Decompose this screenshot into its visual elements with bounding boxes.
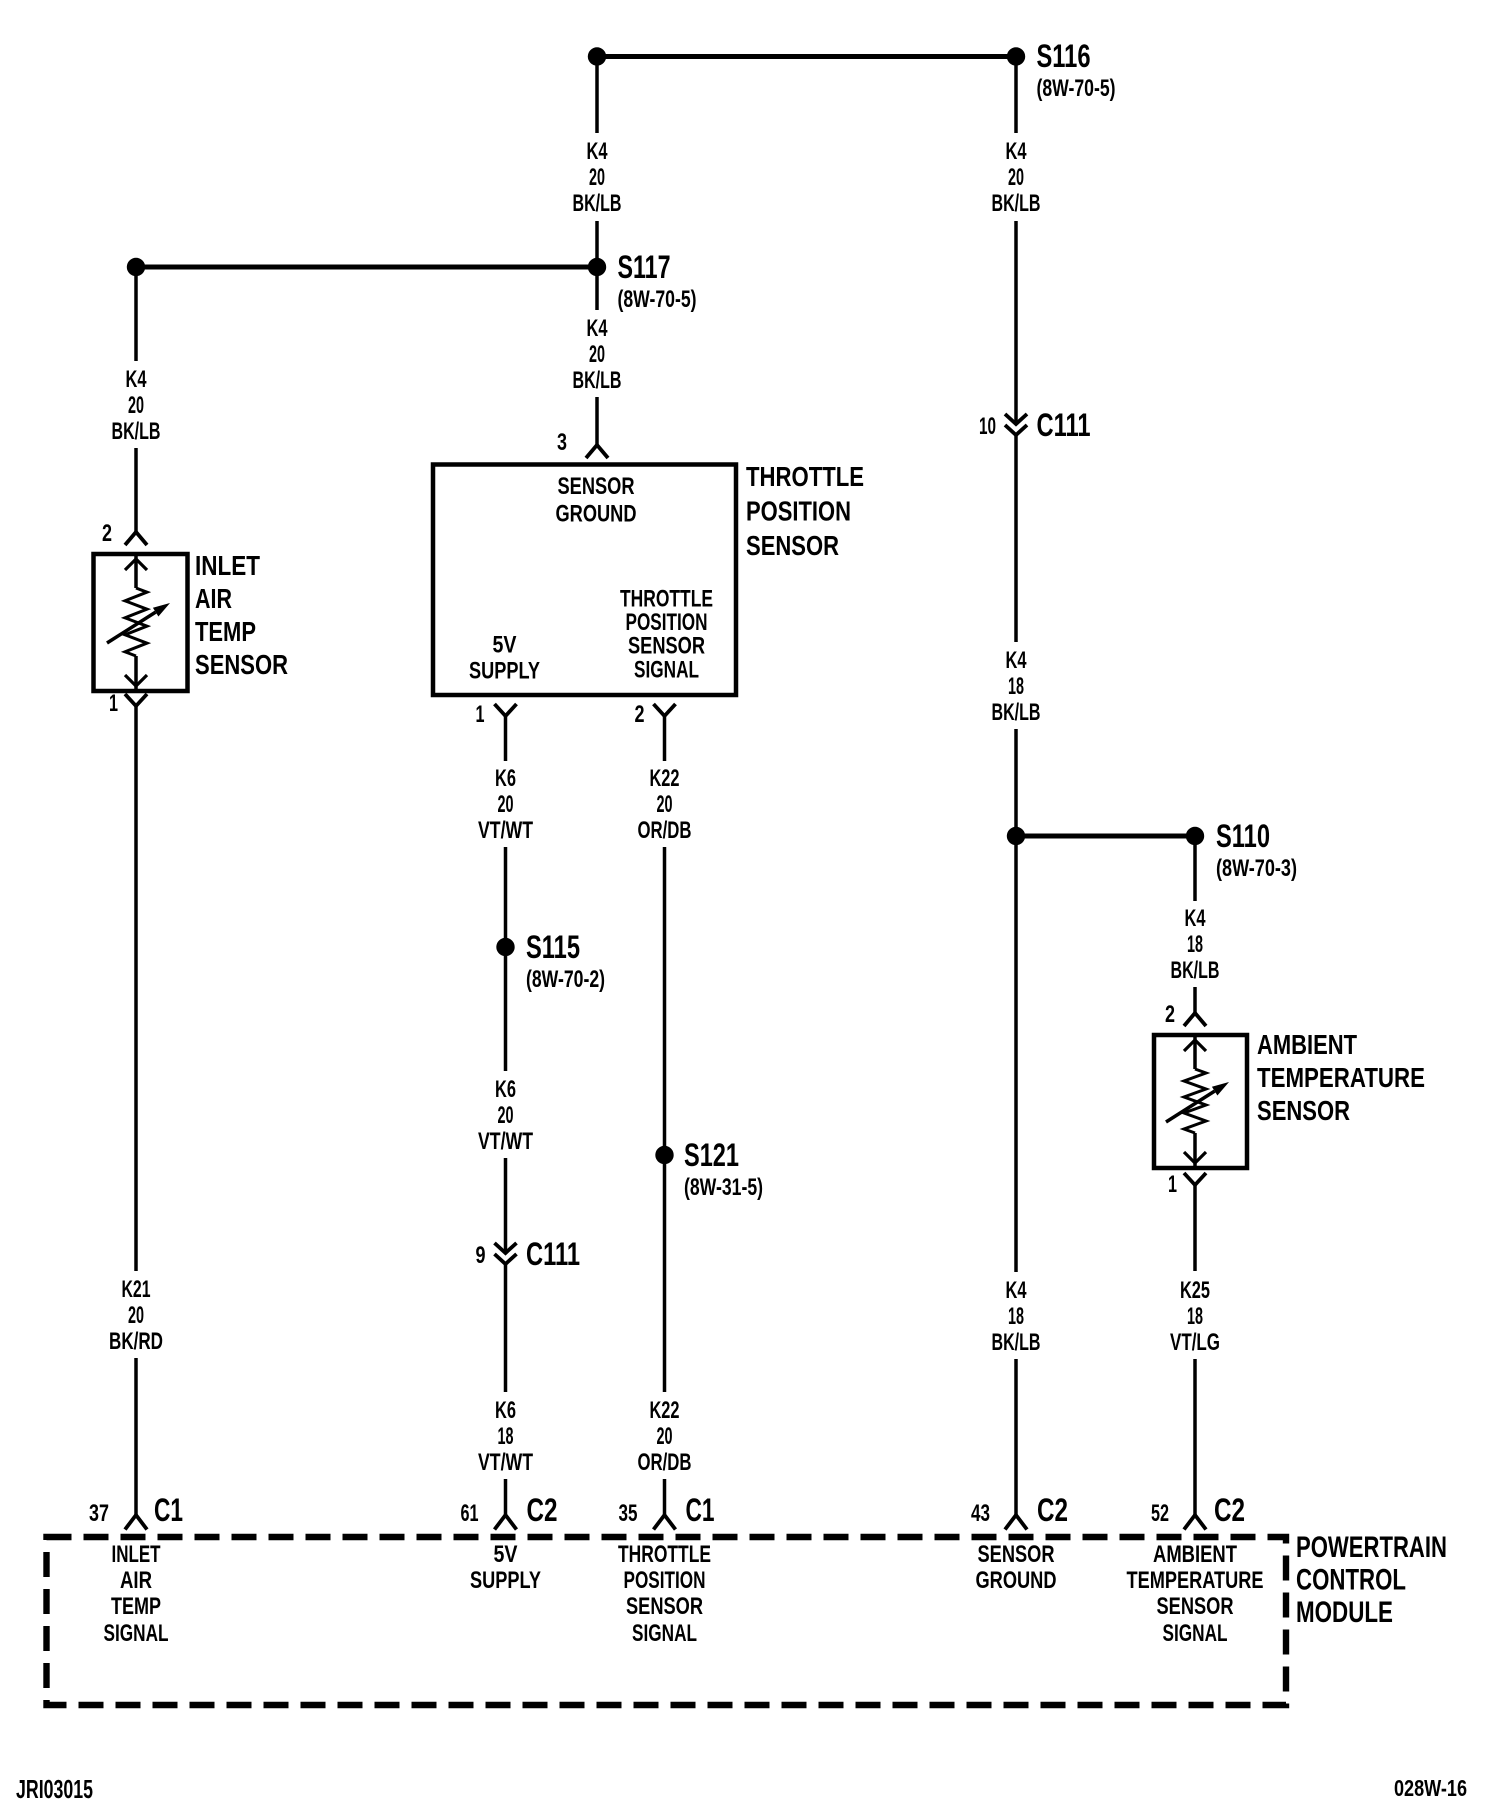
svg-text:TEMP: TEMP <box>111 1593 161 1620</box>
svg-text:C1: C1 <box>154 1492 183 1528</box>
wire <box>1014 1359 1018 1515</box>
svg-text:VT/WT: VT/WT <box>478 1128 533 1155</box>
svg-text:(8W-70-5): (8W-70-5) <box>1037 75 1116 102</box>
svg-text:1: 1 <box>1168 1171 1177 1198</box>
svg-text:BK/LB: BK/LB <box>1171 957 1220 984</box>
wire <box>595 397 599 445</box>
connector C111 pin 10 in-line <box>1005 414 1027 424</box>
wire <box>663 847 667 1146</box>
svg-text:VT/WT: VT/WT <box>478 817 533 844</box>
svg-text:K6: K6 <box>495 765 516 792</box>
svg-text:2: 2 <box>635 701 645 728</box>
wire top bus S116 <box>597 54 1016 59</box>
svg-text:VT/LG: VT/LG <box>1170 1329 1220 1356</box>
svg-text:20: 20 <box>589 164 605 191</box>
svg-text:K6: K6 <box>495 1397 516 1424</box>
svg-text:028W-16: 028W-16 <box>1394 1775 1467 1801</box>
svg-text:K4: K4 <box>126 366 147 393</box>
wire <box>134 1358 138 1515</box>
node S115 splice <box>496 938 514 956</box>
wire from S117 bus down <box>134 276 138 361</box>
svg-text:BK/LB: BK/LB <box>573 367 622 394</box>
wire S117 horizontal bus <box>136 265 597 270</box>
wire from S110 down <box>1193 845 1197 901</box>
svg-text:1: 1 <box>109 690 118 717</box>
node S121 splice <box>655 1146 673 1164</box>
svg-text:K25: K25 <box>1180 1277 1210 1304</box>
svg-text:S110: S110 <box>1216 818 1270 854</box>
ambient temperature sensor box <box>1154 1035 1247 1168</box>
wire <box>504 1264 508 1392</box>
wire <box>1014 435 1018 642</box>
svg-text:SENSOR: SENSOR <box>746 530 839 561</box>
wire <box>504 1479 508 1515</box>
svg-text:BK/LB: BK/LB <box>112 418 161 445</box>
svg-text:SUPPLY: SUPPLY <box>470 1567 541 1594</box>
node S117 splice <box>588 258 606 276</box>
wire <box>1014 221 1018 424</box>
svg-text:C111: C111 <box>526 1236 580 1272</box>
svg-text:20: 20 <box>589 341 605 368</box>
svg-text:SENSOR: SENSOR <box>195 649 288 680</box>
svg-text:SENSOR: SENSOR <box>628 633 705 660</box>
svg-text:AIR: AIR <box>195 583 232 614</box>
svg-text:C2: C2 <box>1214 1492 1245 1528</box>
svg-text:GROUND: GROUND <box>976 1567 1057 1594</box>
wire <box>504 847 508 938</box>
svg-text:SIGNAL: SIGNAL <box>632 1620 697 1647</box>
thermistor symbol ambient temperature sensor <box>1193 1035 1197 1069</box>
svg-text:SENSOR: SENSOR <box>558 473 635 500</box>
svg-text:C2: C2 <box>1037 1492 1068 1528</box>
svg-text:TEMPERATURE: TEMPERATURE <box>1257 1062 1425 1093</box>
svg-text:S115: S115 <box>526 929 580 965</box>
svg-text:35: 35 <box>619 1500 638 1527</box>
svg-text:AIR: AIR <box>120 1567 152 1594</box>
svg-text:20: 20 <box>498 1102 514 1129</box>
wire S110 horizontal bus <box>1016 834 1195 839</box>
svg-text:GROUND: GROUND <box>556 501 637 528</box>
wire K21 20 BK/RD long run <box>134 706 138 1271</box>
svg-text:61: 61 <box>461 1500 479 1527</box>
svg-text:20: 20 <box>1008 164 1024 191</box>
svg-text:2: 2 <box>102 520 112 547</box>
inlet air temp sensor box <box>94 554 188 691</box>
svg-text:K6: K6 <box>495 1076 516 1103</box>
svg-text:S117: S117 <box>618 249 671 285</box>
svg-text:3: 3 <box>557 429 567 456</box>
svg-text:POSITION: POSITION <box>746 496 851 527</box>
wire <box>663 1479 667 1515</box>
wire <box>134 448 138 532</box>
wire <box>663 1164 667 1392</box>
svg-text:BK/LB: BK/LB <box>992 190 1041 217</box>
svg-text:K4: K4 <box>587 138 608 165</box>
wire <box>504 1158 508 1253</box>
svg-text:20: 20 <box>498 791 514 818</box>
wire <box>663 716 667 761</box>
svg-text:20: 20 <box>657 1423 673 1450</box>
svg-text:C2: C2 <box>527 1492 558 1528</box>
svg-text:52: 52 <box>1151 1500 1169 1527</box>
svg-text:K4: K4 <box>1006 138 1027 165</box>
node junction with S110 bus <box>1007 827 1025 845</box>
svg-text:MODULE: MODULE <box>1296 1596 1393 1629</box>
wire <box>1193 987 1197 1013</box>
svg-text:BK/LB: BK/LB <box>992 699 1041 726</box>
svg-text:18: 18 <box>1187 931 1203 958</box>
powertrain control module dashed box <box>47 1537 1287 1705</box>
svg-text:(8W-70-2): (8W-70-2) <box>526 966 605 993</box>
svg-text:18: 18 <box>1008 1303 1024 1330</box>
wire K4 20 BK/LB from top bus to S117 <box>595 60 599 133</box>
svg-text:(8W-31-5): (8W-31-5) <box>684 1174 763 1201</box>
wire from top bus down <box>1014 60 1018 133</box>
svg-text:INLET: INLET <box>195 550 260 581</box>
svg-text:SIGNAL: SIGNAL <box>634 657 699 684</box>
svg-text:10: 10 <box>979 413 996 440</box>
svg-text:20: 20 <box>128 392 144 419</box>
wire <box>1014 729 1018 1272</box>
svg-text:20: 20 <box>128 1302 144 1329</box>
svg-text:POSITION: POSITION <box>624 1567 706 1594</box>
svg-text:C111: C111 <box>1037 407 1091 443</box>
wire <box>595 276 599 310</box>
svg-text:37: 37 <box>89 1500 109 1527</box>
svg-text:POWERTRAIN: POWERTRAIN <box>1296 1531 1447 1564</box>
throttle position sensor box <box>433 465 736 696</box>
svg-text:JRI03015: JRI03015 <box>16 1774 93 1804</box>
node S116 splice <box>1007 47 1025 65</box>
svg-text:THROTTLE: THROTTLE <box>746 461 864 492</box>
svg-text:(8W-70-5): (8W-70-5) <box>618 286 697 313</box>
svg-text:BK/RD: BK/RD <box>109 1328 163 1355</box>
svg-text:20: 20 <box>657 791 673 818</box>
svg-text:43: 43 <box>971 1500 990 1527</box>
svg-text:K22: K22 <box>650 1397 680 1424</box>
svg-text:BK/LB: BK/LB <box>992 1329 1041 1356</box>
svg-text:K4: K4 <box>587 315 608 342</box>
wire <box>504 716 508 761</box>
svg-text:OR/DB: OR/DB <box>638 817 692 844</box>
svg-text:SIGNAL: SIGNAL <box>104 1620 169 1647</box>
node junction at top of sensor-ground branch <box>588 47 606 65</box>
svg-text:5V: 5V <box>493 632 517 659</box>
svg-text:SENSOR: SENSOR <box>626 1593 703 1620</box>
wire <box>595 221 599 258</box>
svg-text:K4: K4 <box>1185 905 1206 932</box>
svg-text:(8W-70-3): (8W-70-3) <box>1216 855 1297 882</box>
svg-text:VT/WT: VT/WT <box>478 1449 533 1476</box>
svg-text:SIGNAL: SIGNAL <box>1163 1620 1228 1647</box>
svg-text:18: 18 <box>498 1423 514 1450</box>
svg-text:K4: K4 <box>1006 647 1027 674</box>
thermistor symbol inlet air temp sensor <box>134 554 138 588</box>
svg-text:9: 9 <box>476 1242 486 1269</box>
svg-text:THROTTLE: THROTTLE <box>618 1541 711 1568</box>
svg-text:CONTROL: CONTROL <box>1296 1564 1406 1597</box>
svg-text:K21: K21 <box>122 1276 151 1303</box>
svg-text:1: 1 <box>476 701 485 728</box>
svg-text:SENSOR: SENSOR <box>1257 1095 1350 1126</box>
svg-text:18: 18 <box>1187 1303 1203 1330</box>
wire <box>504 956 508 1071</box>
node S110 splice <box>1186 827 1204 845</box>
svg-text:5V: 5V <box>494 1541 518 1568</box>
svg-text:2: 2 <box>1165 1001 1175 1028</box>
svg-text:S121: S121 <box>684 1137 739 1173</box>
svg-text:OR/DB: OR/DB <box>638 1449 692 1476</box>
svg-text:18: 18 <box>1008 673 1024 700</box>
svg-text:C1: C1 <box>686 1492 715 1528</box>
svg-text:TEMPERATURE: TEMPERATURE <box>1127 1567 1264 1594</box>
svg-text:S116: S116 <box>1037 38 1091 74</box>
svg-text:TEMP: TEMP <box>195 616 256 647</box>
svg-text:SENSOR: SENSOR <box>978 1541 1055 1568</box>
svg-text:BK/LB: BK/LB <box>573 190 622 217</box>
svg-text:SENSOR: SENSOR <box>1157 1593 1234 1620</box>
node junction left end of S117 bus <box>127 258 145 276</box>
svg-text:K22: K22 <box>650 765 680 792</box>
svg-text:SUPPLY: SUPPLY <box>469 658 540 685</box>
wire <box>1193 1359 1197 1515</box>
svg-text:INLET: INLET <box>112 1541 161 1568</box>
svg-text:AMBIENT: AMBIENT <box>1153 1541 1237 1568</box>
svg-text:K4: K4 <box>1006 1277 1027 1304</box>
svg-text:AMBIENT: AMBIENT <box>1257 1029 1357 1060</box>
connector C111 pin 9 in-line <box>495 1243 517 1253</box>
wire <box>1193 1185 1197 1271</box>
